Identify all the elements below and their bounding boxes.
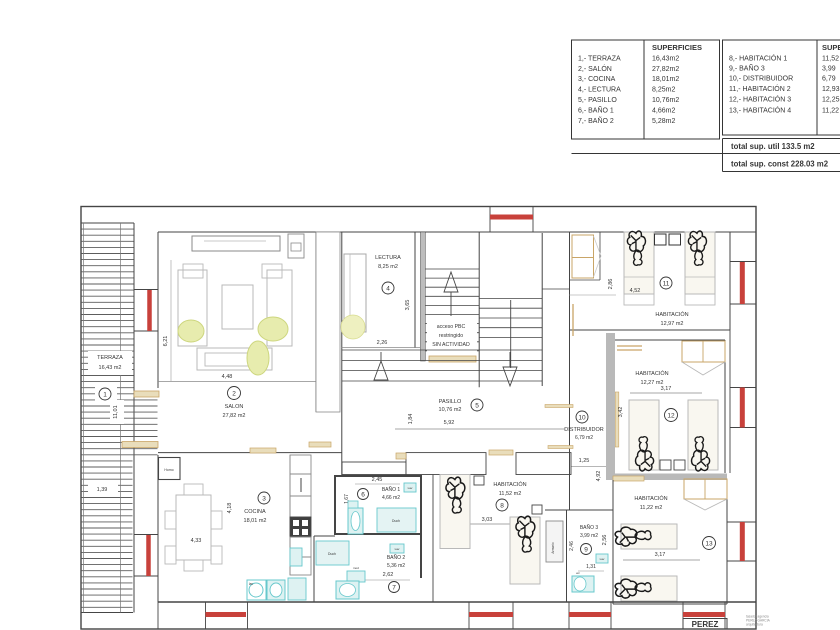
svg-text:Lav: Lav (600, 557, 605, 561)
svg-text:4,48: 4,48 (222, 374, 233, 380)
svg-text:10,- DISTRIBUIDOR: 10,- DISTRIBUIDOR (729, 76, 793, 83)
svg-text:SALON: SALON (225, 404, 244, 410)
svg-text:arquitectura: arquitectura (746, 623, 763, 627)
svg-text:8: 8 (500, 502, 504, 509)
svg-text:HABITACIÓN: HABITACIÓN (493, 481, 526, 488)
svg-text:12: 12 (667, 412, 675, 419)
svg-text:BAÑO 3: BAÑO 3 (580, 524, 599, 531)
svg-text:4,66 m2: 4,66 m2 (382, 495, 400, 501)
svg-text:10,76 m2: 10,76 m2 (439, 407, 462, 413)
svg-text:8,- HABITACIÓN 1: 8,- HABITACIÓN 1 (729, 54, 787, 63)
svg-text:6,21: 6,21 (163, 336, 169, 347)
svg-text:10: 10 (578, 414, 586, 421)
svg-text:7,- BAÑO 2: 7,- BAÑO 2 (578, 116, 614, 125)
svg-text:Duch: Duch (328, 552, 336, 556)
svg-text:3,99: 3,99 (822, 66, 836, 73)
svg-text:6: 6 (361, 491, 365, 498)
svg-text:HABITACIÓN: HABITACIÓN (635, 370, 668, 377)
svg-text:lav: lav (249, 582, 253, 586)
svg-text:3,- COCINA: 3,- COCINA (578, 76, 616, 83)
svg-text:4,33: 4,33 (191, 538, 202, 544)
svg-text:9,- BAÑO 3: 9,- BAÑO 3 (729, 64, 765, 73)
svg-text:13,- HABITACIÓN 4: 13,- HABITACIÓN 4 (729, 106, 791, 115)
svg-text:SIN ACTIVIDAD: SIN ACTIVIDAD (432, 342, 470, 348)
svg-text:3,99 m2: 3,99 m2 (580, 533, 598, 539)
svg-text:HABITACIÓN: HABITACIÓN (655, 311, 688, 318)
svg-text:16,43m2: 16,43m2 (652, 56, 679, 63)
svg-text:1,84: 1,84 (408, 414, 414, 425)
svg-text:6,79: 6,79 (822, 76, 836, 83)
svg-text:11,52 m2: 11,52 m2 (499, 491, 522, 497)
svg-text:SUPERFICIES: SUPERFICIES (822, 43, 840, 52)
svg-text:11,- HABITACIÓN 2: 11,- HABITACIÓN 2 (729, 84, 791, 93)
svg-text:5,36 m2: 5,36 m2 (387, 563, 405, 569)
svg-text:11,01: 11,01 (113, 405, 119, 418)
svg-text:5,92: 5,92 (444, 420, 455, 426)
svg-text:4: 4 (386, 285, 390, 292)
svg-text:1,25: 1,25 (579, 458, 590, 464)
svg-text:3,17: 3,17 (661, 386, 672, 392)
svg-text:5,28m2: 5,28m2 (652, 118, 675, 125)
svg-text:1: 1 (103, 391, 107, 398)
svg-text:restringido: restringido (439, 333, 463, 339)
svg-text:18,01m2: 18,01m2 (652, 76, 679, 83)
svg-text:4,66m2: 4,66m2 (652, 108, 675, 115)
svg-text:8,25 m2: 8,25 m2 (378, 264, 398, 270)
svg-text:2,- SALÓN: 2,- SALÓN (578, 64, 612, 73)
svg-text:5: 5 (475, 402, 479, 409)
svg-text:8,25m2: 8,25m2 (652, 87, 675, 94)
svg-text:3: 3 (262, 495, 266, 502)
svg-text:27,82 m2: 27,82 m2 (223, 413, 246, 419)
svg-text:Armario: Armario (551, 542, 555, 553)
svg-text:6,79 m2: 6,79 m2 (575, 435, 593, 441)
svg-text:2,46: 2,46 (569, 541, 575, 551)
svg-text:12,97 m2: 12,97 m2 (661, 321, 684, 327)
svg-text:4,- LECTURA: 4,- LECTURA (578, 87, 621, 94)
svg-text:Lav: Lav (408, 486, 413, 490)
svg-text:wc: wc (576, 571, 580, 575)
svg-text:2,86: 2,86 (608, 279, 614, 290)
svg-text:2,62: 2,62 (383, 572, 394, 578)
svg-text:TERRAZA: TERRAZA (97, 355, 123, 361)
svg-text:HABITACIÓN: HABITACIÓN (634, 495, 667, 502)
svg-text:18,01 m2: 18,01 m2 (244, 518, 267, 524)
svg-text:SUPERFICIES: SUPERFICIES (652, 43, 702, 52)
svg-text:1,- TERRAZA: 1,- TERRAZA (578, 56, 621, 63)
svg-text:3,42: 3,42 (618, 407, 624, 418)
svg-text:12,25: 12,25 (822, 97, 840, 104)
svg-text:3,65: 3,65 (405, 300, 411, 311)
svg-text:5,- PASILLO: 5,- PASILLO (578, 97, 617, 104)
svg-text:acceso PBC: acceso PBC (437, 324, 466, 330)
svg-text:7: 7 (392, 584, 396, 591)
svg-text:2,45: 2,45 (372, 477, 383, 483)
svg-text:12,93: 12,93 (822, 86, 840, 93)
svg-text:total sup. const 228.03 m2: total sup. const 228.03 m2 (731, 160, 829, 169)
svg-text:DISTRIBUIDOR: DISTRIBUIDOR (564, 427, 603, 433)
svg-text:Lav: Lav (395, 547, 400, 551)
svg-text:PEREZ: PEREZ (692, 620, 719, 629)
svg-text:11: 11 (663, 280, 670, 287)
svg-text:1,39: 1,39 (97, 487, 108, 493)
svg-text:BAÑO 2: BAÑO 2 (387, 554, 406, 561)
svg-text:PASILLO: PASILLO (439, 399, 462, 405)
svg-text:11,22 m2: 11,22 m2 (640, 505, 663, 511)
svg-text:10,76m2: 10,76m2 (652, 97, 679, 104)
svg-text:11,52: 11,52 (822, 56, 839, 63)
svg-text:12,- HABITACIÓN 3: 12,- HABITACIÓN 3 (729, 95, 791, 104)
svg-text:13: 13 (705, 540, 713, 547)
svg-text:BAÑO 1: BAÑO 1 (382, 486, 401, 493)
svg-text:4,52: 4,52 (630, 288, 641, 294)
svg-text:2: 2 (232, 390, 236, 397)
svg-text:3,03: 3,03 (482, 517, 493, 523)
svg-text:total sup. util 133.5 m2: total sup. util 133.5 m2 (731, 142, 815, 151)
svg-text:27,82m2: 27,82m2 (652, 66, 679, 73)
svg-text:Horno: Horno (164, 468, 173, 472)
svg-text:LECTURA: LECTURA (375, 255, 401, 261)
svg-text:3,17: 3,17 (655, 552, 666, 558)
svg-text:Duch: Duch (392, 519, 400, 523)
svg-text:16,43 m2: 16,43 m2 (99, 365, 122, 371)
svg-text:COCINA: COCINA (244, 509, 266, 515)
svg-text:2,26: 2,26 (377, 340, 388, 346)
svg-text:4,18: 4,18 (227, 503, 233, 514)
svg-text:inod: inod (353, 566, 359, 570)
svg-text:6,- BAÑO 1: 6,- BAÑO 1 (578, 106, 614, 115)
svg-text:1,31: 1,31 (586, 564, 596, 570)
svg-text:9: 9 (584, 546, 588, 553)
svg-text:2,56: 2,56 (602, 535, 608, 546)
svg-text:4,92: 4,92 (596, 471, 602, 482)
svg-text:11,22: 11,22 (822, 108, 839, 115)
